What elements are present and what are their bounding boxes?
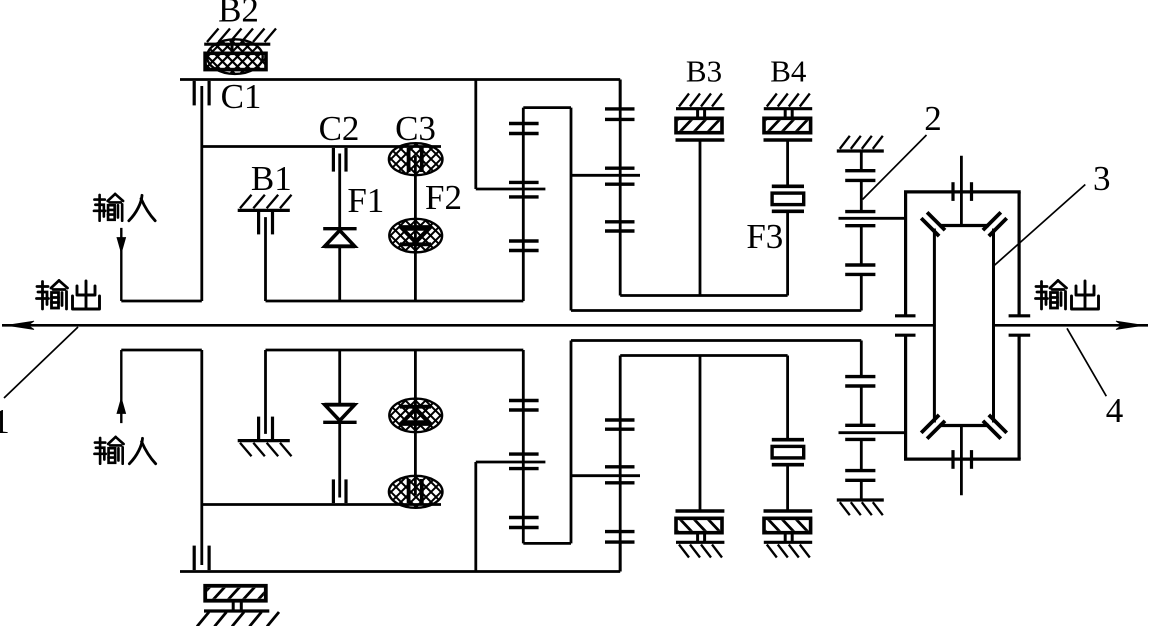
one-way clutch F2 (lower mirror) <box>353 398 478 433</box>
one-way clutch F1 <box>323 229 356 301</box>
label F3 <box>746 217 783 256</box>
wire vertical x571 (lower mirror) <box>570 341 573 544</box>
wire carrier gearset1 <box>476 188 546 191</box>
label C2 <box>319 109 360 148</box>
label C3 <box>395 109 436 148</box>
svg-text:B2: B2 <box>218 0 259 30</box>
gearset2 mesh A (lower mirror) <box>605 532 635 543</box>
gearset2 mesh B (lower mirror) <box>605 467 635 483</box>
label C1 <box>221 77 262 116</box>
main axle shaft <box>2 321 1148 329</box>
label B3 <box>686 54 722 89</box>
label 1 <box>0 402 10 441</box>
wire rail2b <box>266 300 524 303</box>
arrow input upper (points down) (lower mirror) <box>117 399 125 414</box>
svg-text:2: 2 <box>924 99 942 138</box>
label B1 <box>251 159 292 198</box>
differential cage <box>921 212 1007 325</box>
brake B4 <box>752 94 824 187</box>
gearset2 mesh C <box>605 222 635 231</box>
one-way clutch F2 <box>353 218 478 253</box>
svg-text:B3: B3 <box>686 54 722 89</box>
wire rail2b (lower mirror) <box>266 349 524 352</box>
clutch C3 <box>354 142 478 301</box>
gearset2 mesh B <box>605 168 635 184</box>
svg-text:C3: C3 <box>395 109 436 148</box>
final drive frame <box>895 192 1030 316</box>
leader line 3 <box>993 185 1086 268</box>
label B4 <box>770 54 807 89</box>
brake column 2 <box>837 136 906 311</box>
brake B3 (lower mirror) <box>664 356 736 558</box>
final drive frame (lower mirror) <box>895 335 1030 459</box>
wire top rail <box>180 80 620 109</box>
svg-text:B4: B4 <box>770 54 807 89</box>
label 3 <box>1093 159 1111 198</box>
wire ring shaft gearset1 <box>474 80 477 190</box>
svg-text:C2: C2 <box>319 109 360 148</box>
wire rail4 <box>620 294 787 297</box>
gearset1 sun shaft (lower mirror) <box>522 350 525 543</box>
label F2 <box>425 178 462 217</box>
brake B1 (lower mirror) <box>238 350 292 456</box>
label shuchu right (output) <box>1036 281 1099 310</box>
gearset1 mesh B (lower mirror) <box>509 454 539 469</box>
wire input vertical upper-left (lower mirror) <box>120 350 122 423</box>
wire top rail (lower mirror) <box>180 542 620 571</box>
svg-text:C1: C1 <box>221 77 262 116</box>
wire rail2 (lower mirror) <box>202 350 441 505</box>
clutch dashes on housing (lower mirror) <box>953 450 972 469</box>
wire housing input shaft (lower mirror) <box>960 426 963 496</box>
svg-text:F2: F2 <box>425 178 462 217</box>
clutch dashes on housing <box>953 182 972 201</box>
wire input vertical upper-left <box>120 228 122 301</box>
label 4 <box>1106 391 1124 430</box>
svg-text:F3: F3 <box>746 217 783 256</box>
brake B1 <box>238 195 292 301</box>
one-way clutch F1 (lower mirror) <box>323 350 356 422</box>
leader line 1 <box>4 327 78 398</box>
brake B2 symbol <box>169 29 296 76</box>
gearset1 mesh C <box>509 241 539 251</box>
label shuchu left (output) <box>37 281 100 310</box>
gearset2 mesh A <box>605 109 635 120</box>
wire link y108 <box>523 106 571 109</box>
wire rail3 (lower mirror) <box>571 339 861 342</box>
gearset1 mesh B <box>509 182 539 197</box>
svg-text:F1: F1 <box>347 181 384 220</box>
differential cage (lower mirror) <box>921 325 1007 438</box>
gearset1 mesh A (lower mirror) <box>509 518 539 528</box>
gearset1 sun shaft <box>522 108 525 301</box>
brake B4 (lower mirror) <box>752 465 824 558</box>
svg-text:3: 3 <box>1093 159 1111 198</box>
wire carrier gearset2 (lower mirror) <box>571 474 640 477</box>
leader line 4 <box>1067 328 1106 396</box>
arrow input upper (points down) <box>117 238 125 253</box>
clutch C3 (lower mirror) <box>354 350 478 509</box>
wire ring shaft gearset1 (lower mirror) <box>474 462 477 572</box>
wire rail3 <box>571 309 861 312</box>
svg-text:4: 4 <box>1106 391 1124 430</box>
label B2 <box>218 0 259 30</box>
brake B3 <box>664 94 736 296</box>
gearset2 sun shaft (lower mirror) <box>619 356 622 572</box>
clutch C1 <box>194 81 209 147</box>
coupling F3 (lower mirror) <box>772 356 804 465</box>
clutch C2 <box>333 148 346 227</box>
clutch C1 (lower mirror) <box>194 505 209 571</box>
wire carrier gearset1 (lower mirror) <box>476 461 546 464</box>
gearset2 mesh C (lower mirror) <box>605 420 635 429</box>
label 2 <box>924 99 942 138</box>
gearset1 mesh C (lower mirror) <box>509 401 539 411</box>
wire housing input shaft <box>960 156 963 226</box>
wire input rail upper-left <box>121 300 202 303</box>
label shuru bottom (input) <box>94 437 155 464</box>
wire carrier gearset2 <box>571 174 640 177</box>
svg-text:B1: B1 <box>251 159 292 198</box>
svg-text:1: 1 <box>0 402 10 441</box>
wire vertical x571 <box>570 108 573 311</box>
gearset2 sun shaft <box>619 80 622 296</box>
wire input rail upper-left (lower mirror) <box>121 349 202 352</box>
wire link y108 (lower mirror) <box>523 542 571 545</box>
label F1 <box>347 181 384 220</box>
coupling F3 <box>772 186 804 295</box>
brake column 2 (lower mirror) <box>837 341 906 516</box>
clutch C2 (lower mirror) <box>333 424 346 503</box>
leader line 2 <box>863 135 927 200</box>
label shuru top (input) <box>94 194 155 221</box>
gearset1 mesh A <box>509 124 539 134</box>
brake band bottom centre <box>196 585 287 627</box>
wire rail4 (lower mirror) <box>620 354 787 357</box>
wire rail2 <box>202 147 441 302</box>
